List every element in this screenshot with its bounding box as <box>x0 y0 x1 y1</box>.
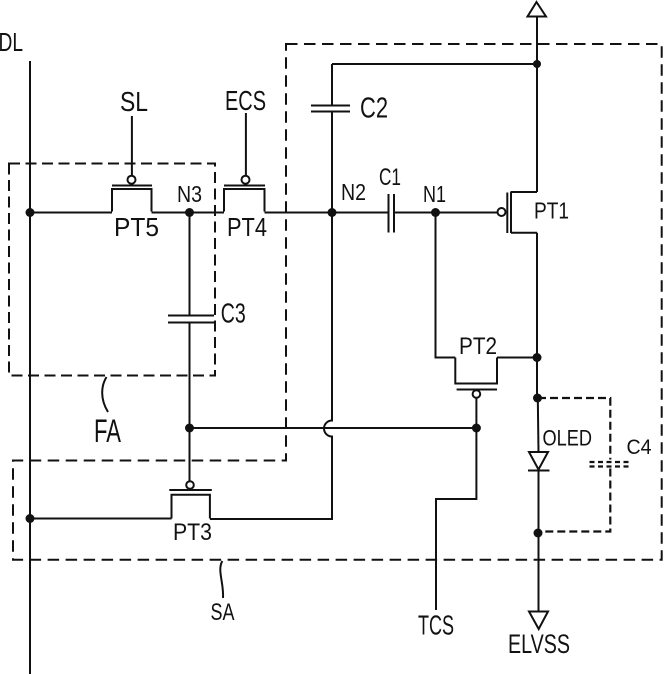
wire ECS gate line <box>245 113 247 176</box>
capacitor C4 (dashed plates) <box>590 436 652 467</box>
node junction OLED box top dot <box>533 394 542 403</box>
transistor PT4 <box>224 176 267 242</box>
node junction drain dot <box>533 60 541 68</box>
node junction C3/PT3 gate dot <box>185 424 194 433</box>
label SA leader <box>220 561 223 598</box>
node junction PT2 gate dot <box>472 424 481 433</box>
wire N2 down with hop over gate wire <box>210 213 332 520</box>
wire PT1 source to OLED <box>537 398 540 452</box>
svg-text:C1: C1 <box>379 164 401 191</box>
wire OLED to ELVSS <box>538 533 540 611</box>
svg-text:TCS: TCS <box>418 610 454 641</box>
transistor PT2 (inverted) <box>455 333 537 428</box>
svg-text:SA: SA <box>211 599 235 626</box>
node junction OLED box bottom dot <box>534 529 543 538</box>
wire PT3 gate down <box>189 428 191 481</box>
wire node to PT2 gate <box>190 427 477 429</box>
svg-text:PT2: PT2 <box>459 333 497 360</box>
capacitor C1 <box>332 164 436 233</box>
wire ELVDD down to PT1 <box>536 17 538 193</box>
svg-text:C4: C4 <box>627 436 652 459</box>
svg-text:DL: DL <box>0 29 23 57</box>
wire DL to PT5 <box>30 212 112 214</box>
node junction DL/PT3 dot <box>26 514 35 523</box>
svg-text:ECS: ECS <box>225 85 266 116</box>
svg-text:PT5: PT5 <box>114 212 159 242</box>
node junction DL/row dot <box>26 208 35 217</box>
node N2 dot <box>328 208 337 217</box>
svg-text:C3: C3 <box>221 298 246 329</box>
capacitor C2 <box>311 64 388 213</box>
wire PT3 to DL <box>30 518 172 520</box>
svg-text:OLED: OLED <box>543 425 593 450</box>
node N3 dot <box>185 208 194 217</box>
diode OLED <box>528 425 592 533</box>
capacitor C3 <box>168 213 246 429</box>
transistor PT5 <box>112 176 159 242</box>
svg-text:PT3: PT3 <box>173 519 212 546</box>
power ELVDD triangle <box>528 2 547 17</box>
label FA leader <box>102 377 108 412</box>
transistor PT3 <box>169 481 212 546</box>
svg-text:FA: FA <box>94 413 121 449</box>
wire DL vertical data line <box>29 61 31 674</box>
node N1 dot <box>431 208 440 217</box>
wire TCS from PT2 gate node <box>436 428 476 610</box>
svg-text:SL: SL <box>120 86 148 117</box>
svg-text:N3: N3 <box>177 181 202 207</box>
wire C2 top to PT1 drain <box>332 63 537 65</box>
wire N1 to PT1 gate <box>436 212 498 214</box>
wire PT4 to N2 <box>265 212 333 214</box>
svg-text:C2: C2 <box>360 93 388 125</box>
wire PT1 source down <box>536 233 538 398</box>
node junction PT2/PT1 source dot <box>533 353 542 362</box>
transistor PT1 <box>498 192 570 234</box>
wire N1 down to PT2 <box>436 213 456 358</box>
svg-text:PT1: PT1 <box>534 198 569 224</box>
svg-text:N1: N1 <box>423 181 446 207</box>
wire SL gate line <box>131 116 133 176</box>
dashed box SA region (L-shaped) <box>13 44 662 560</box>
dashed box OLED/C4 <box>538 398 610 532</box>
svg-text:N2: N2 <box>341 179 366 205</box>
svg-text:ELVSS: ELVSS <box>508 629 570 659</box>
power ELVSS arrow <box>529 612 548 630</box>
svg-text:PT4: PT4 <box>227 212 267 242</box>
wire PT5 to PT4 <box>152 212 225 214</box>
dashed box FA region <box>9 164 215 376</box>
